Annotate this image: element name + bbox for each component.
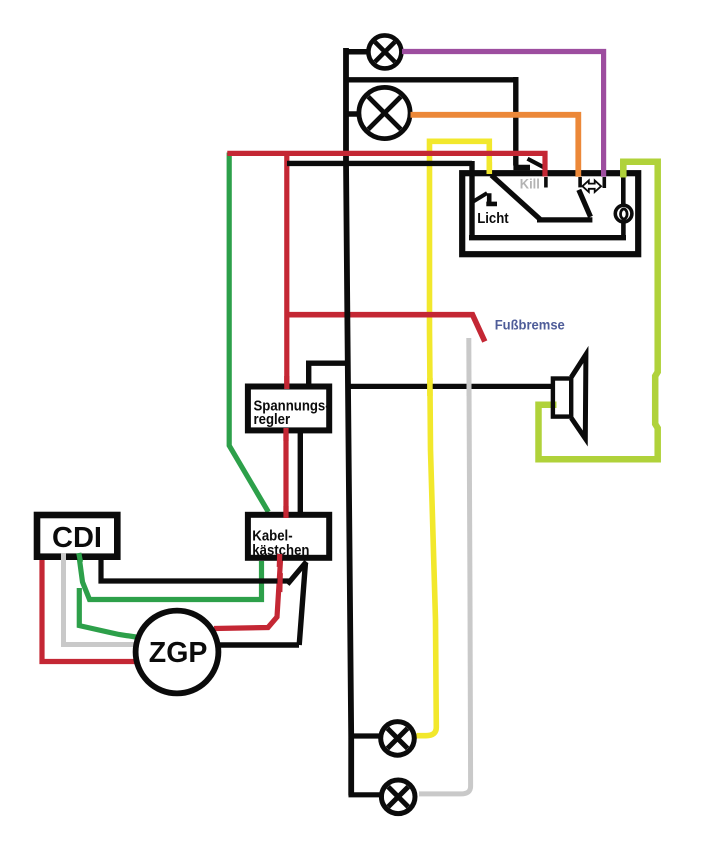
wire: red stub over regulator box bottom edge <box>283 428 288 441</box>
wire: black speaker feed from trunk <box>350 384 552 389</box>
svg-text:CDI: CDI <box>52 522 102 554</box>
wire: green branch to ZGP <box>79 588 136 637</box>
wire: light green entry stub over switch box edge <box>620 160 627 178</box>
wire: yellow headlight wire from switch to rear lamp L3 <box>417 139 490 736</box>
contact tick under purple wire <box>602 177 606 188</box>
wire: red stub over black junction wire crossing <box>277 573 283 592</box>
wire: black CDI to junction box corner <box>101 558 306 584</box>
wire: black from trunk to kill switch, with L-foot <box>347 77 530 168</box>
ZGP ignition base plate (circle) <box>136 611 219 694</box>
horn button (circle with dot) <box>615 205 632 222</box>
lamp L4 (tail lamp bulb) <box>381 780 415 814</box>
wire: yellow entry stub over switch box edge <box>486 162 492 174</box>
wire: black regulator top to trunk <box>309 363 349 384</box>
light switch main lever (diagonal from yellow contact) <box>491 175 592 220</box>
wire: black junction box down to ZGP <box>219 563 306 646</box>
Licht switch lever <box>474 193 488 201</box>
wire: black from red-junction to switch box interior left <box>287 161 472 238</box>
wire: gray stub over CDI box edge <box>61 553 66 572</box>
lamp L2 (headlight, large bulb) <box>359 87 410 138</box>
wire: red stub over junction box bottom edge <box>277 554 283 567</box>
wire: black trunk vertical (main ground/return bus) <box>346 48 351 796</box>
kill switch lever (open) <box>528 159 544 168</box>
svg-text:Kill: Kill <box>520 176 540 192</box>
wire: black trunk stub to lamp L4 <box>349 792 385 797</box>
contact tick under red kill wire <box>544 177 548 188</box>
voltage regulator box (Spannungsregler) <box>248 387 330 431</box>
switch box housing (handlebar switch unit) <box>462 173 638 254</box>
wire: green stub over CDI box edge <box>79 553 81 562</box>
wire: dark green long wire from front down to junction box <box>229 153 268 513</box>
wire: black stub bus to horn button <box>621 222 626 238</box>
junction box (Kabelkaestchen) <box>248 515 329 558</box>
horn speaker symbol <box>553 355 586 439</box>
wire: black trunk stub to lamp L3 <box>349 733 384 738</box>
wire: red Fussbremse brake switch stub <box>287 315 485 342</box>
wire: red branch down to voltage regulator <box>284 153 289 384</box>
contact tick under orange wire <box>578 177 582 187</box>
wire: orange wire lamp L2 to switch <box>411 115 579 177</box>
wire: yellow stub over speaker feed crossing <box>427 378 433 396</box>
svg-text:regler: regler <box>254 410 291 427</box>
wire: gray stub over speaker feed crossing <box>467 378 472 396</box>
lamp L1 (pilot light, top small bulb) <box>368 35 401 68</box>
direction arrow symbol (double headed) <box>582 180 601 192</box>
wire: gray CDI to ZGP <box>64 556 138 645</box>
wire: red CDI to ZGP <box>42 560 136 662</box>
svg-text:Licht: Licht <box>477 209 509 226</box>
wire: red stub over junction box top edge <box>283 506 288 518</box>
lamp L3 (rear brake lamp bulb) <box>381 722 415 756</box>
wire: red junction box to ZGP <box>214 557 281 629</box>
wire: light green horn wire from speaker around to horn button <box>539 162 658 460</box>
wire: red regulator to junction box <box>283 433 288 512</box>
wire: red main ignition wire to kill contact <box>227 153 545 176</box>
wire: green CDI to junction box <box>79 556 262 600</box>
wire: black link trunk to lamp L1 <box>345 49 367 55</box>
wire: black stub light-green entry to horn button <box>621 175 626 206</box>
wire: black inner bottom bus of switch box <box>469 235 626 240</box>
svg-text:Fußbremse: Fußbremse <box>495 317 566 333</box>
wire: red stub over regulator box top edge <box>284 376 289 389</box>
wire: gray brake-light wire from Fussbremse switch to tail lamp L4 <box>419 338 471 794</box>
wire: black link trunk to lamp L2 <box>345 111 358 117</box>
CDI box <box>37 515 117 557</box>
wire: purple wire lamp L1 to switch <box>402 52 604 177</box>
Licht contact tick <box>486 193 497 204</box>
svg-text:ZGP: ZGP <box>149 637 208 669</box>
wire: black regulator to junction box <box>298 433 303 512</box>
